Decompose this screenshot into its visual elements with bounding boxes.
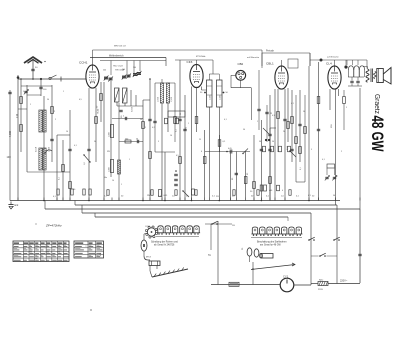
svg-text:784. Oszill: 784. Oszill [113,66,123,68]
svg-text:ab Gerat Nr 248726: ab Gerat Nr 248726 [154,244,175,247]
svg-text:1,500: 1,500 [210,95,212,100]
svg-text:50: 50 [272,141,274,143]
svg-text:10: 10 [112,180,114,182]
svg-text:6F13: 6F13 [146,257,152,259]
svg-text:1,000: 1,000 [109,132,111,137]
svg-text:CF3: CF3 [187,60,193,64]
svg-text:0,5: 0,5 [79,99,82,101]
svg-text:0,1: 0,1 [291,103,294,105]
svg-text:5: 5 [311,149,312,151]
svg-text:50: 50 [259,141,261,143]
svg-text:0,018: 0,018 [36,146,38,152]
svg-text:5: 5 [158,141,159,143]
svg-text:0,3: 0,3 [272,115,275,117]
svg-text:CCH1: CCH1 [79,61,88,65]
svg-text:CBL1: CBL1 [266,62,274,66]
svg-text:CL4: CL4 [326,62,332,66]
svg-text:Erd: Erd [15,204,19,207]
svg-text:50: 50 [303,111,305,113]
svg-text:0,1: 0,1 [224,119,227,121]
svg-text:1,000: 1,000 [109,167,111,172]
svg-text:Schaltung der Rohren und: Schaltung der Rohren und [151,240,179,243]
svg-text:1: 1 [63,91,64,93]
svg-text:50: 50 [243,129,245,131]
svg-text:0,2: 0,2 [152,127,155,129]
svg-text:0,1: 0,1 [322,159,325,161]
svg-text:1: 1 [121,184,122,186]
svg-text:CCH1: CCH1 [145,226,150,228]
svg-text:100: 100 [133,67,136,69]
svg-text:Periode: Periode [266,50,275,53]
svg-text:20: 20 [283,131,285,133]
svg-text:1,000: 1,000 [49,146,51,152]
svg-text:10: 10 [66,131,68,133]
svg-text:2: 2 [123,116,124,118]
svg-text:50n: 50n [104,177,107,179]
svg-text:2: 2 [341,151,342,153]
svg-text:Graetz: Graetz [373,94,382,114]
svg-text:ZF=472kHz: ZF=472kHz [45,224,62,228]
svg-text:6T552kHz: 6T552kHz [196,56,205,58]
svg-text:Beschaltung des Stahlrohren: Beschaltung des Stahlrohren [257,240,287,243]
svg-text:0,5: 0,5 [176,155,179,157]
svg-text:0,05: 0,05 [228,148,232,150]
svg-text:4: 4 [282,190,283,192]
svg-text:500: 500 [125,139,128,141]
svg-text:50: 50 [94,141,96,143]
svg-text:auf Wunsche: auf Wunsche [247,57,260,59]
svg-text:400: 400 [269,190,272,192]
svg-text:220V~: 220V~ [340,280,348,283]
svg-text:500: 500 [122,69,125,71]
svg-text:4,000: 4,000 [9,130,12,137]
svg-text:500: 500 [103,70,106,72]
svg-text:0,15: 0,15 [164,195,168,197]
svg-text:1,500: 1,500 [171,96,173,102]
svg-text:48 GW: 48 GW [368,116,386,152]
svg-text:10: 10 [170,135,172,137]
svg-text:Wellenbereich: Wellenbereich [109,54,124,57]
svg-text:0,1: 0,1 [74,145,77,147]
svg-text:2: 2 [55,119,56,121]
svg-text:50: 50 [136,139,138,141]
svg-text:auf Wunsche: auf Wunsche [327,56,340,58]
svg-text:1: 1 [257,121,258,123]
svg-text:WF2 LB 1,9: WF2 LB 1,9 [114,46,126,48]
svg-text:am Gerat fur 48 GW: am Gerat fur 48 GW [260,244,282,247]
svg-text:50: 50 [333,195,335,197]
svg-text:220V: 220V [318,289,323,291]
svg-text:CB2: CB2 [238,62,244,66]
svg-text:50: 50 [47,99,49,101]
svg-text:25: 25 [199,139,201,141]
svg-text:1: 1 [129,159,130,161]
svg-text:5: 5 [23,91,24,93]
svg-text:CY1: CY1 [283,275,289,279]
svg-text:5,000: 5,000 [132,106,134,112]
svg-text:1,500: 1,500 [220,95,222,100]
svg-text:1Ω: 1Ω [232,225,235,227]
svg-text:1,500: 1,500 [158,96,160,102]
svg-text:0,1: 0,1 [308,195,311,197]
svg-text:1: 1 [30,104,31,106]
svg-text:Netz: Netz [319,278,323,281]
svg-text:50: 50 [140,119,142,121]
svg-text:2W: 2W [147,195,150,197]
svg-text:TA: TA [208,254,211,257]
svg-text:1: 1 [188,123,189,125]
svg-text:3W: 3W [107,151,110,153]
